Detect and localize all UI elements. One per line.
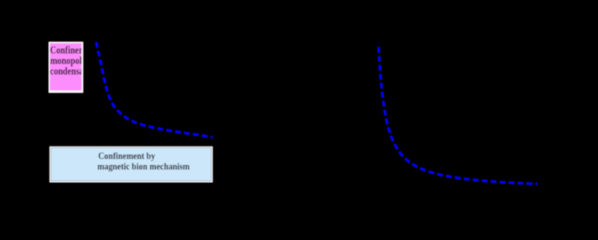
bottom label text: Confinement by magnetic bion mechanism [97, 151, 190, 172]
left plot dashed curve (confinement scale vs coupling) [96, 42, 212, 137]
svg-text:Confinement by: Confinement by [98, 151, 156, 162]
svg-text:monopole: monopole [50, 56, 85, 67]
svg-text:magnetic bion mechanism: magnetic bion mechanism [97, 161, 190, 172]
left label box pink fill [50, 43, 82, 90]
right plot dashed curve (mass gap vs coupling) [379, 47, 538, 184]
bottom label box white margin [49, 146, 212, 182]
bottom label box light blue fill [51, 148, 212, 181]
left label box white margin [49, 42, 84, 93]
left label text: Confinement monopole condensation (clipped) [50, 46, 98, 78]
